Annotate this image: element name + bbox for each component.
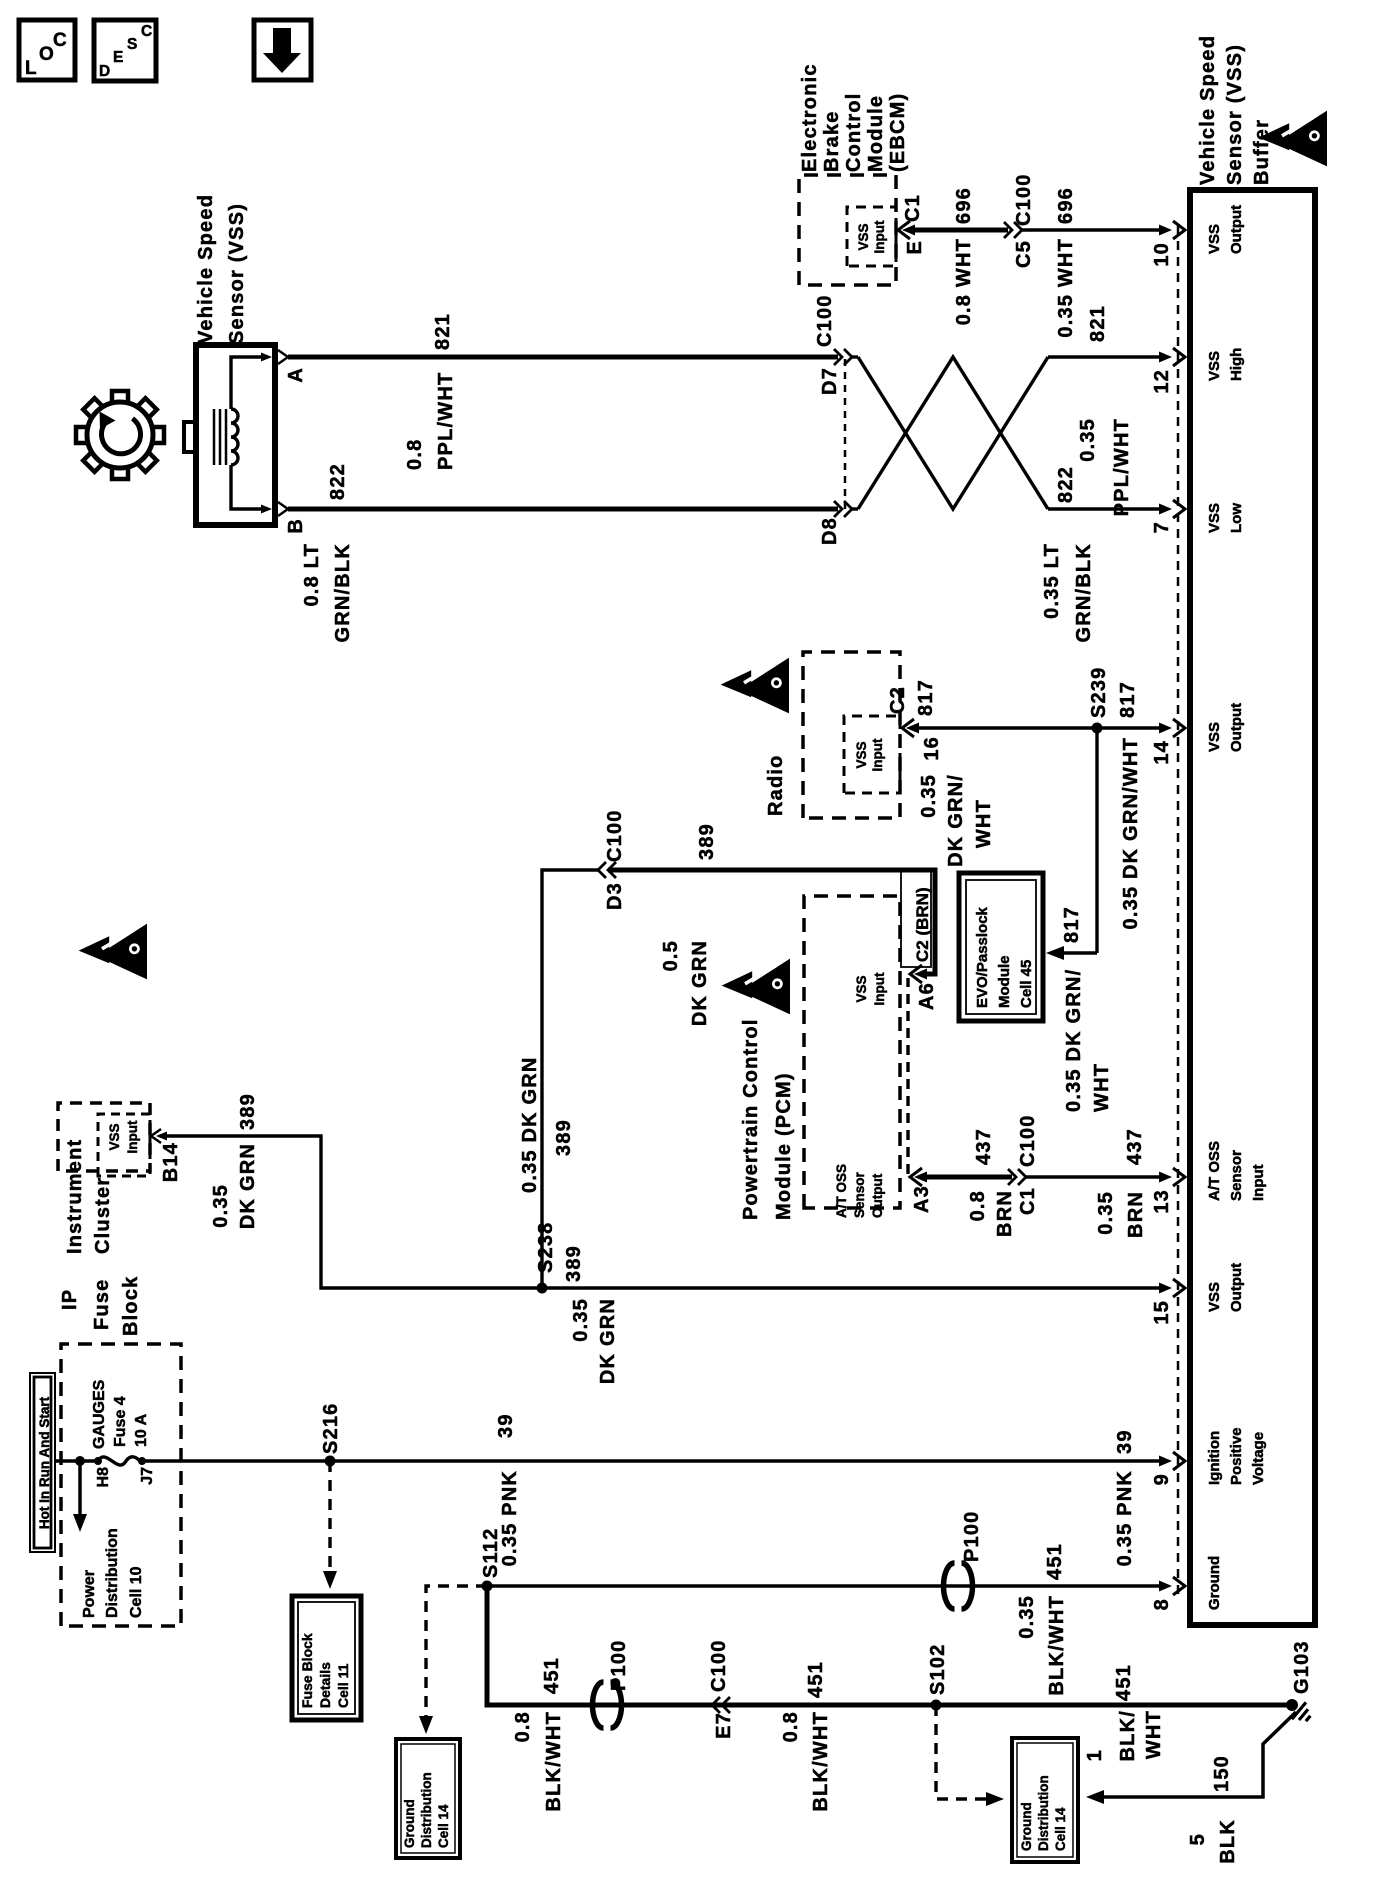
svg-text:WHT: WHT xyxy=(1091,1063,1113,1112)
dashed reference to Fuse Block Details xyxy=(328,1461,331,1577)
svg-text:451: 451 xyxy=(1044,1543,1066,1580)
svg-text:0.8 LT: 0.8 LT xyxy=(301,543,323,607)
pin B14 xyxy=(151,1129,161,1143)
arrow to Power Distribution Cell 10 xyxy=(78,1461,82,1520)
svg-text:Input: Input xyxy=(870,738,885,771)
svg-text:10 A: 10 A xyxy=(133,1413,150,1447)
svg-text:9: 9 xyxy=(1151,1473,1173,1485)
svg-text:EVO/Passlock: EVO/Passlock xyxy=(974,906,991,1008)
svg-text:C1: C1 xyxy=(1017,1187,1039,1215)
svg-text:BLK: BLK xyxy=(1217,1819,1239,1864)
svg-text:Instrument: Instrument xyxy=(64,1139,86,1254)
down-arrow icon box xyxy=(254,20,311,80)
svg-text:C100: C100 xyxy=(708,1639,730,1692)
svg-text:IP: IP xyxy=(59,1289,81,1310)
ground G103 xyxy=(1286,1699,1298,1711)
IC VSS Input sub-box xyxy=(98,1114,150,1176)
svg-text:S102: S102 xyxy=(927,1643,949,1695)
Fuse Block Details Cell 11 box xyxy=(292,1596,361,1720)
svg-text:Positive: Positive xyxy=(1228,1427,1245,1485)
svg-text:10: 10 xyxy=(1151,242,1173,267)
grommet P100 lower xyxy=(593,1682,604,1728)
reluctor gear icon xyxy=(76,391,164,479)
svg-text:High: High xyxy=(1228,348,1245,381)
svg-text:H8: H8 xyxy=(95,1467,112,1488)
svg-text:696: 696 xyxy=(953,187,975,224)
svg-text:DK GRN/: DK GRN/ xyxy=(945,774,967,867)
svg-text:Ground: Ground xyxy=(1206,1556,1223,1610)
buffer pin 14 xyxy=(1173,719,1185,737)
svg-text:8: 8 xyxy=(1151,1598,1173,1610)
PCM off-page arrows xyxy=(722,959,790,1015)
svg-text:Cluster: Cluster xyxy=(92,1177,114,1254)
svg-text:C100: C100 xyxy=(1013,173,1035,226)
wire 0.35 DK GRN 389 from B14 to S238 xyxy=(160,1136,542,1288)
wire 0.35 DK GRN 389 from S238 to pin 15 xyxy=(542,1286,1164,1289)
svg-text:D8: D8 xyxy=(819,517,841,545)
svg-text:BLK/WHT: BLK/WHT xyxy=(543,1711,565,1812)
svg-text:Sensor (VSS): Sensor (VSS) xyxy=(226,203,248,344)
svg-text:Vehicle Speed: Vehicle Speed xyxy=(1197,35,1219,185)
branch wire S239 to EVO module xyxy=(1095,728,1098,953)
svg-text:Low: Low xyxy=(1228,503,1245,533)
buffer pin 13 xyxy=(1173,1168,1185,1186)
svg-text:Radio: Radio xyxy=(765,754,787,816)
svg-text:16: 16 xyxy=(921,736,943,761)
VSS sensor box xyxy=(196,345,275,525)
pin A6 C2 (BRN) xyxy=(910,965,922,983)
svg-text:Hot In Run And Start: Hot In Run And Start xyxy=(37,1396,52,1529)
svg-text:821: 821 xyxy=(1087,305,1109,342)
svg-text:39: 39 xyxy=(495,1413,517,1438)
LOC icon box xyxy=(19,20,75,80)
pin 16 C2 xyxy=(902,719,914,737)
svg-text:0.8: 0.8 xyxy=(780,1711,802,1742)
svg-text:Ground: Ground xyxy=(402,1799,417,1848)
svg-text:0.35 DK GRN/: 0.35 DK GRN/ xyxy=(1063,969,1085,1112)
svg-text:C100: C100 xyxy=(1017,1114,1039,1167)
svg-text:5: 5 xyxy=(1187,1833,1209,1845)
wire 0.8 PPL/WHT 821 from pin A to C100 D7 xyxy=(288,355,838,360)
svg-text:696: 696 xyxy=(1055,187,1077,224)
EVO/Passlock Module Cell 45 box xyxy=(959,873,1043,1021)
svg-text:S238: S238 xyxy=(535,1221,557,1273)
svg-text:Sensor: Sensor xyxy=(1228,1150,1245,1201)
Ground Distribution Cell 14 box upper xyxy=(396,1739,460,1858)
svg-text:13: 13 xyxy=(1151,1189,1173,1214)
svg-text:0.35 LT: 0.35 LT xyxy=(1041,543,1063,619)
svg-text:0.5: 0.5 xyxy=(660,940,682,971)
svg-text:0.8: 0.8 xyxy=(967,1190,989,1221)
Instrument Cluster box xyxy=(58,1103,150,1171)
buffer pin 7 xyxy=(1173,500,1185,518)
svg-text:S239: S239 xyxy=(1088,666,1110,718)
svg-text:C100: C100 xyxy=(814,294,836,347)
svg-text:C2: C2 xyxy=(887,686,909,714)
svg-text:A3: A3 xyxy=(911,1185,933,1213)
svg-text:P100: P100 xyxy=(961,1510,983,1562)
svg-text:0.35 DK GRN: 0.35 DK GRN xyxy=(519,1056,541,1193)
svg-text:Distribution: Distribution xyxy=(419,1772,434,1848)
pin B xyxy=(278,502,288,516)
svg-text:451: 451 xyxy=(541,1657,563,1694)
svg-text:(EBCM): (EBCM) xyxy=(887,93,909,172)
wire S239 to pin 14 xyxy=(1097,726,1164,729)
buffer pin 12 xyxy=(1173,348,1185,366)
svg-text:Module: Module xyxy=(865,95,887,172)
svg-text:VSS: VSS xyxy=(854,741,869,768)
svg-text:389: 389 xyxy=(553,1119,575,1156)
svg-text:0.35: 0.35 xyxy=(570,1298,592,1342)
svg-text:Power: Power xyxy=(81,1570,98,1618)
C100 connector D8 xyxy=(834,501,842,517)
svg-text:VSS: VSS xyxy=(1206,722,1223,752)
sensor mounting tab xyxy=(184,422,196,452)
svg-text:817: 817 xyxy=(915,679,937,716)
svg-text:451: 451 xyxy=(805,1661,827,1698)
svg-text:Electronic: Electronic xyxy=(799,63,821,172)
wire 0.8 BLK/WHT 451 S112 branch to G103 xyxy=(487,1586,1290,1705)
svg-text:Output: Output xyxy=(1228,1263,1245,1312)
svg-text:C2 (BRN): C2 (BRN) xyxy=(913,887,932,962)
svg-text:BRN: BRN xyxy=(1125,1191,1147,1238)
wire 0.8 WHT 696 xyxy=(910,228,1008,233)
Hot In Run And Start box xyxy=(30,1373,55,1552)
svg-text:Fuse 4: Fuse 4 xyxy=(112,1396,129,1447)
PCM module box xyxy=(804,896,900,1208)
svg-text:Module: Module xyxy=(996,956,1013,1009)
svg-text:S: S xyxy=(127,36,137,53)
svg-text:S112: S112 xyxy=(480,1528,502,1578)
svg-text:0.8 WHT: 0.8 WHT xyxy=(953,238,975,325)
svg-text:Output: Output xyxy=(1228,703,1245,752)
buffer pin 9 xyxy=(1173,1452,1185,1470)
svg-text:Sensor: Sensor xyxy=(852,1171,867,1218)
svg-text:E: E xyxy=(904,240,926,255)
wire 0.35 DK GRN 389 from D3 to S238 xyxy=(542,870,598,1288)
svg-text:150: 150 xyxy=(1211,1755,1233,1792)
buffer pin 10 xyxy=(1173,221,1185,239)
svg-text:0.35: 0.35 xyxy=(918,774,940,818)
svg-text:C: C xyxy=(53,30,67,51)
Radio module box xyxy=(803,652,900,818)
svg-text:A6: A6 xyxy=(916,982,938,1010)
wire 0.35 PNK 39 to S216 xyxy=(142,1459,330,1463)
svg-text:B14: B14 xyxy=(160,1142,182,1182)
svg-text:Cell 14: Cell 14 xyxy=(436,1804,451,1848)
svg-text:Output: Output xyxy=(870,1173,885,1218)
C100 connector D7 xyxy=(834,349,842,365)
svg-text:C100: C100 xyxy=(604,809,626,862)
svg-text:PPL/WHT: PPL/WHT xyxy=(435,372,457,470)
svg-text:817: 817 xyxy=(1061,906,1083,943)
svg-text:VSS: VSS xyxy=(1206,1282,1223,1312)
svg-text:817: 817 xyxy=(1117,681,1139,718)
C100 connector C5 xyxy=(1004,222,1012,238)
svg-text:O: O xyxy=(39,44,54,65)
svg-text:Fuse Block: Fuse Block xyxy=(299,1633,315,1708)
svg-text:D3: D3 xyxy=(604,882,626,910)
wire 0.5 DK GRN 389 from A6 to C100 D3 xyxy=(608,870,935,974)
svg-text:Distribution: Distribution xyxy=(104,1528,121,1618)
buffer pin 15 xyxy=(1173,1279,1185,1297)
Radio VSS Input sub-box xyxy=(844,716,900,793)
wire 0.8 BRN 437 from A3 to C100 C1 xyxy=(922,1175,1012,1180)
svg-text:Input: Input xyxy=(125,1120,140,1153)
Radio off-page arrows xyxy=(721,658,789,714)
svg-text:0.8: 0.8 xyxy=(512,1711,534,1742)
svg-text:Fuse: Fuse xyxy=(91,1279,113,1330)
svg-text:Distribution: Distribution xyxy=(1036,1775,1051,1851)
svg-text:822: 822 xyxy=(1055,466,1077,503)
svg-text:Details: Details xyxy=(317,1662,333,1708)
svg-text:VSS: VSS xyxy=(856,223,871,250)
svg-text:1: 1 xyxy=(1084,1749,1106,1761)
twisted-pair crossover D7/D8 to pins 12/7 xyxy=(852,355,858,358)
PCM internal dashed separator xyxy=(906,978,909,1174)
wire 0.35 BRN 437 to pin 13 xyxy=(1026,1175,1164,1178)
svg-text:L: L xyxy=(25,58,37,79)
svg-text:BLK/WHT: BLK/WHT xyxy=(1046,1595,1068,1696)
svg-text:WHT: WHT xyxy=(973,799,995,848)
svg-text:0.35: 0.35 xyxy=(1095,1191,1117,1235)
splice S216 xyxy=(325,1456,336,1467)
C100 connector D3 xyxy=(598,862,606,878)
svg-text:Input: Input xyxy=(872,972,887,1005)
splice S102 xyxy=(931,1700,942,1711)
svg-text:0.35 PNK: 0.35 PNK xyxy=(499,1470,521,1566)
svg-text:437: 437 xyxy=(1124,1128,1146,1165)
svg-text:A/T OSS: A/T OSS xyxy=(834,1164,849,1218)
svg-text:E7: E7 xyxy=(713,1712,735,1739)
svg-text:DK GRN: DK GRN xyxy=(689,940,711,1026)
svg-text:12: 12 xyxy=(1151,369,1173,394)
svg-text:Powertrain Control: Powertrain Control xyxy=(740,1018,762,1220)
svg-text:Ignition: Ignition xyxy=(1206,1431,1223,1485)
svg-text:Input: Input xyxy=(872,220,887,253)
svg-text:0.35 DK GRN/WHT: 0.35 DK GRN/WHT xyxy=(1120,737,1142,929)
svg-text:A: A xyxy=(285,367,307,383)
svg-text:7: 7 xyxy=(1151,521,1173,533)
pin A3 xyxy=(910,1168,922,1186)
svg-text:P100: P100 xyxy=(608,1639,630,1691)
svg-text:39: 39 xyxy=(1114,1429,1136,1454)
svg-text:389: 389 xyxy=(237,1093,259,1130)
svg-text:Module (PCM): Module (PCM) xyxy=(773,1072,795,1220)
svg-text:C5: C5 xyxy=(1013,240,1035,268)
IP Fuse Block box xyxy=(61,1344,181,1626)
EBCM VSS Input sub-box xyxy=(847,207,896,266)
splice S239 xyxy=(1092,723,1103,734)
svg-text:Cell 11: Cell 11 xyxy=(335,1663,351,1708)
svg-text:E: E xyxy=(113,49,123,66)
EBCM module box xyxy=(799,175,896,285)
svg-text:DK GRN: DK GRN xyxy=(597,1298,619,1384)
svg-text:PPL/WHT: PPL/WHT xyxy=(1111,418,1133,516)
svg-text:A/T OSS: A/T OSS xyxy=(1206,1141,1223,1201)
svg-text:821: 821 xyxy=(432,313,454,350)
junction in fuse block xyxy=(75,1456,85,1466)
C100 dashed connector line at D7/D8 xyxy=(844,357,847,509)
buffer pin 8 xyxy=(1173,1577,1185,1595)
svg-text:Cell 14: Cell 14 xyxy=(1053,1807,1068,1851)
IC off-page arrows xyxy=(79,924,147,980)
svg-text:VSS: VSS xyxy=(1206,503,1223,533)
svg-text:437: 437 xyxy=(973,1128,995,1165)
svg-text:D7: D7 xyxy=(819,367,841,395)
svg-text:BLK/WHT: BLK/WHT xyxy=(810,1711,832,1812)
svg-text:DK GRN: DK GRN xyxy=(237,1143,259,1229)
svg-text:BRN: BRN xyxy=(994,1190,1016,1237)
svg-text:Sensor (VSS): Sensor (VSS) xyxy=(1224,44,1246,185)
svg-text:Input: Input xyxy=(1250,1164,1267,1201)
svg-text:Cell 10: Cell 10 xyxy=(128,1566,145,1618)
DESC icon box xyxy=(94,20,156,81)
wire 5 BLK 150 from G103 to Ground Distribution xyxy=(1098,1712,1296,1797)
svg-text:Output: Output xyxy=(1228,205,1245,254)
svg-text:S216: S216 xyxy=(320,1402,342,1454)
svg-text:14: 14 xyxy=(1151,740,1173,765)
svg-text:0.35 PNK: 0.35 PNK xyxy=(1114,1470,1136,1566)
splice S238 xyxy=(537,1283,548,1294)
svg-text:Block: Block xyxy=(120,1276,142,1336)
svg-text:0.35: 0.35 xyxy=(1016,1595,1038,1639)
wire 0.35 PNK 39 from S216 to pin 9 xyxy=(330,1459,1164,1463)
svg-text:G103: G103 xyxy=(1291,1640,1313,1694)
dashed reference S112 to Ground Distribution xyxy=(426,1586,487,1724)
svg-text:Voltage: Voltage xyxy=(1250,1432,1267,1485)
svg-text:D: D xyxy=(99,63,110,80)
svg-text:451: 451 xyxy=(1113,1664,1135,1701)
svg-text:389: 389 xyxy=(696,823,718,860)
svg-text:GRN/BLK: GRN/BLK xyxy=(1073,543,1095,643)
svg-text:GRN/BLK: GRN/BLK xyxy=(332,543,354,643)
wire 0.35 DK GRN/WHT 817 to S239 xyxy=(914,726,1097,729)
wire 0.35 WHT 696 to pin 10 xyxy=(1022,228,1164,231)
sensor core lines xyxy=(213,409,216,465)
Ground Distribution Cell 14 box lower xyxy=(1012,1738,1078,1862)
svg-text:J7: J7 xyxy=(139,1467,156,1485)
svg-text:WHT: WHT xyxy=(1143,1710,1165,1759)
svg-text:0.35: 0.35 xyxy=(210,1184,232,1228)
svg-text:Buffer: Buffer xyxy=(1251,119,1273,185)
svg-text:C1: C1 xyxy=(902,194,924,222)
svg-text:15: 15 xyxy=(1151,1300,1173,1325)
C100 connector E7 xyxy=(712,1697,720,1713)
pin A xyxy=(278,350,288,364)
wire 0.8 LT GRN/BLK 822 from pin B to C100 D8 xyxy=(288,507,838,512)
svg-text:Brake: Brake xyxy=(821,110,843,172)
svg-text:0.35: 0.35 xyxy=(1077,418,1099,462)
svg-text:Control: Control xyxy=(843,93,865,173)
splice S112 xyxy=(482,1581,493,1592)
fuse GAUGES Fuse 4 10A xyxy=(94,1457,102,1465)
grommet P100 upper xyxy=(944,1563,955,1609)
svg-text:VSS: VSS xyxy=(1206,351,1223,381)
svg-text:0.35 WHT: 0.35 WHT xyxy=(1055,238,1077,338)
Vehicle Speed Sensor (VSS) Buffer box xyxy=(1190,190,1315,1625)
C100 connector C1 xyxy=(1008,1169,1016,1185)
svg-text:VSS: VSS xyxy=(1206,224,1223,254)
sensor internal winding xyxy=(231,357,268,409)
wire 0.35 BLK/WHT 451 S112 to pin 8 xyxy=(487,1584,1164,1587)
pin E C1 xyxy=(898,221,910,239)
dashed reference S102 to Ground Distribution xyxy=(936,1705,990,1799)
svg-text:C: C xyxy=(141,23,152,40)
svg-text:Cell 45: Cell 45 xyxy=(1018,960,1035,1008)
svg-text:Vehicle Speed: Vehicle Speed xyxy=(195,194,217,344)
svg-text:VSS: VSS xyxy=(107,1123,122,1150)
svg-text:GAUGES: GAUGES xyxy=(91,1379,108,1449)
svg-text:Ground: Ground xyxy=(1019,1802,1034,1851)
wire into fuse block xyxy=(55,1459,96,1463)
svg-text:B: B xyxy=(285,518,307,534)
svg-text:VSS: VSS xyxy=(854,975,869,1002)
buffer connector dashed line xyxy=(1177,224,1180,1594)
svg-text:0.8: 0.8 xyxy=(404,439,426,470)
buffer off-page arrows xyxy=(1259,111,1327,167)
svg-text:BLK/: BLK/ xyxy=(1117,1710,1139,1761)
svg-text:822: 822 xyxy=(327,463,349,500)
svg-text:389: 389 xyxy=(563,1245,585,1282)
